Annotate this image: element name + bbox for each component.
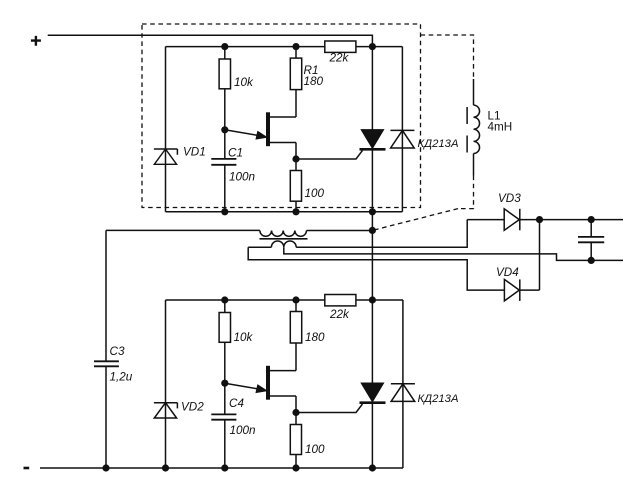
zener VD2 bbox=[154, 403, 178, 418]
wire lower secondary rail bbox=[248, 247, 504, 290]
zener VD1 bbox=[154, 149, 178, 164]
wire VD3 row bbox=[467, 219, 623, 221]
resistor R1 180 bbox=[290, 58, 301, 90]
transformer core bbox=[260, 238, 308, 240]
svg-text:4mH: 4mH bbox=[488, 121, 513, 134]
resistor 100 bbox=[290, 171, 301, 202]
thyristor VS1 bbox=[360, 130, 386, 149]
wire + input bbox=[48, 35, 373, 46]
wire gate 2 bbox=[296, 404, 363, 413]
wire 180-2 branch bbox=[295, 300, 297, 371]
svg-text:100n: 100n bbox=[229, 171, 255, 184]
svg-text:C3: C3 bbox=[110, 345, 125, 358]
transformer T1 secondary bbox=[248, 220, 467, 248]
capacitor C1 bbox=[211, 159, 236, 165]
wire 10k-2 branch bbox=[224, 300, 226, 468]
wire VD1 branch bbox=[165, 47, 167, 212]
inductor L1 bbox=[467, 79, 479, 176]
wire center tap rail bbox=[284, 247, 623, 260]
svg-text:C4: C4 bbox=[229, 397, 244, 410]
transformer T1 primary bbox=[106, 230, 372, 236]
wire 100 branch bbox=[295, 159, 297, 212]
wire bottom rail oscillator 1 bbox=[166, 211, 403, 213]
svg-text:180: 180 bbox=[305, 331, 325, 344]
dashed box oscillator 1 bbox=[142, 24, 421, 208]
capacitor output bbox=[578, 220, 604, 261]
wire gate 1 bbox=[296, 150, 363, 159]
svg-text:10k: 10k bbox=[234, 76, 254, 89]
svg-text:VD4: VD4 bbox=[496, 266, 519, 279]
transistor Q1 bbox=[225, 112, 296, 159]
svg-text:VD2: VD2 bbox=[181, 401, 204, 414]
resistor 22k bottom bbox=[325, 295, 356, 306]
svg-text:1,2u: 1,2u bbox=[110, 371, 133, 384]
resistor 180-2 bbox=[290, 312, 301, 344]
resistor 10k bbox=[219, 59, 230, 89]
svg-text:180: 180 bbox=[304, 75, 324, 88]
wire C3 branch bbox=[105, 230, 107, 468]
resistor 22k top bbox=[325, 41, 356, 52]
thyristor VS2 bbox=[360, 383, 386, 402]
svg-text:VD3: VD3 bbox=[498, 192, 521, 205]
wire dashed below L1 bbox=[458, 176, 474, 209]
dashed box L1 bbox=[421, 35, 474, 79]
wire thyristor branch long vertical bbox=[371, 47, 373, 468]
resistor 10k-2 bbox=[219, 313, 230, 343]
wire R1 branch bbox=[295, 47, 297, 117]
wire VD2 branch bbox=[165, 300, 167, 468]
wire VD4 out bbox=[520, 220, 540, 291]
minus terminal bbox=[24, 467, 30, 470]
svg-text:КД213А: КД213А bbox=[418, 138, 459, 150]
plus terminal bbox=[31, 36, 41, 46]
capacitor C3 bbox=[94, 361, 119, 366]
svg-text:22k: 22k bbox=[329, 308, 350, 321]
capacitor C4 bbox=[211, 414, 236, 419]
svg-text:КД213А: КД213А bbox=[418, 393, 459, 405]
wire 10k branch bbox=[224, 47, 226, 212]
svg-text:C1: C1 bbox=[228, 147, 243, 160]
svg-text:VD1: VD1 bbox=[183, 146, 206, 159]
svg-text:100: 100 bbox=[305, 187, 325, 200]
resistor 100-2 bbox=[290, 425, 301, 455]
transistor Q2 bbox=[225, 366, 296, 413]
diode KD213A bottom bbox=[391, 300, 415, 468]
svg-text:100n: 100n bbox=[230, 424, 256, 437]
oscillator 2 top rail bbox=[166, 299, 403, 301]
diode VD3 bbox=[504, 209, 520, 231]
wire top rail bbox=[166, 46, 403, 48]
svg-text:100: 100 bbox=[305, 443, 325, 456]
svg-text:10k: 10k bbox=[234, 331, 254, 344]
diode VD4 bbox=[504, 279, 519, 301]
diode KD213A top bbox=[390, 47, 414, 212]
wire dashed diagonal to transformer node bbox=[372, 209, 458, 231]
wire minus rail bbox=[40, 467, 403, 469]
svg-text:22k: 22k bbox=[329, 52, 350, 65]
wire 100-2 branch bbox=[295, 413, 297, 469]
